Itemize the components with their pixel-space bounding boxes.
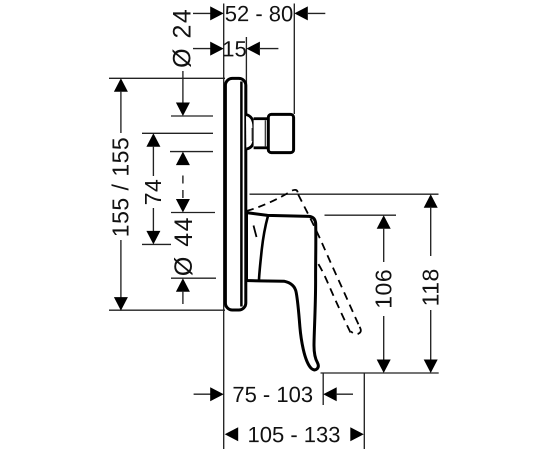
plate front contour line [240,82,243,307]
wire extension line H1 plate top [109,77,225,79]
svg-text:75 - 103: 75 - 103 [232,382,313,407]
dimension 75-103 [194,382,353,407]
dashed lever tip hook [351,327,361,334]
wire extension line V1 wall reference [223,4,225,450]
dimension 74 [140,133,166,244]
dimension 106 [371,215,397,373]
svg-text:155 / 155: 155 / 155 [108,137,134,237]
svg-text:118: 118 [418,268,444,306]
svg-text:Ø 24: Ø 24 [169,8,197,68]
knob end cap [268,114,293,152]
dashed lever raised position outer edge [298,195,359,327]
svg-text:Ø 44: Ø 44 [170,216,198,276]
lever handle body [247,213,319,370]
svg-text:52 - 80: 52 - 80 [225,1,294,26]
wire extension line H5 knob center [142,132,213,134]
wire extension line H8 pivot center [142,243,171,245]
dimension 105-133 [225,422,364,447]
wire extension line H7 dia44 top [171,212,215,214]
wire extension line H4 knob top [171,115,213,117]
dimension label dia 24 [169,8,197,165]
wire extension line H9 dia44 bottom [171,277,216,279]
wire extension line H13 lever tip bottom [321,372,439,374]
dashed lever front edge near base [254,226,257,238]
wire extension line V3 knob end face [293,4,295,115]
wire dashed connector between dia24 and dia44 arrows [182,176,184,199]
knob neck [246,115,254,149]
dimension 52-80 top [193,1,325,26]
svg-text:74: 74 [140,179,166,206]
dimension 118 [418,194,444,373]
knob cylinder [254,119,269,148]
wire extension line H12 lever top 106 [325,214,397,216]
svg-text:15: 15 [222,36,246,61]
svg-text:106: 106 [371,269,397,309]
lever cone front edge [259,216,268,280]
wire extension line H6 knob bottom [170,151,213,153]
dashed lever raised position back edge [247,190,298,211]
wire extension line H11 handle top 118 [250,193,439,195]
wire extension line V2 plate front face [245,37,247,114]
dimension label dia 44 [170,199,198,304]
escutcheon plate outline [225,78,245,310]
wire extension line V5 lever tip [322,373,324,405]
knob neck contour [251,128,253,141]
dashed lever inner edge [317,262,351,333]
svg-text:105 - 133: 105 - 133 [248,422,341,447]
wire extension line V4 bottom right [363,373,365,449]
dimension 155 / 155 [108,78,134,310]
dimension 15 [193,36,278,61]
wire extension line H10 plate bottom [109,309,225,311]
